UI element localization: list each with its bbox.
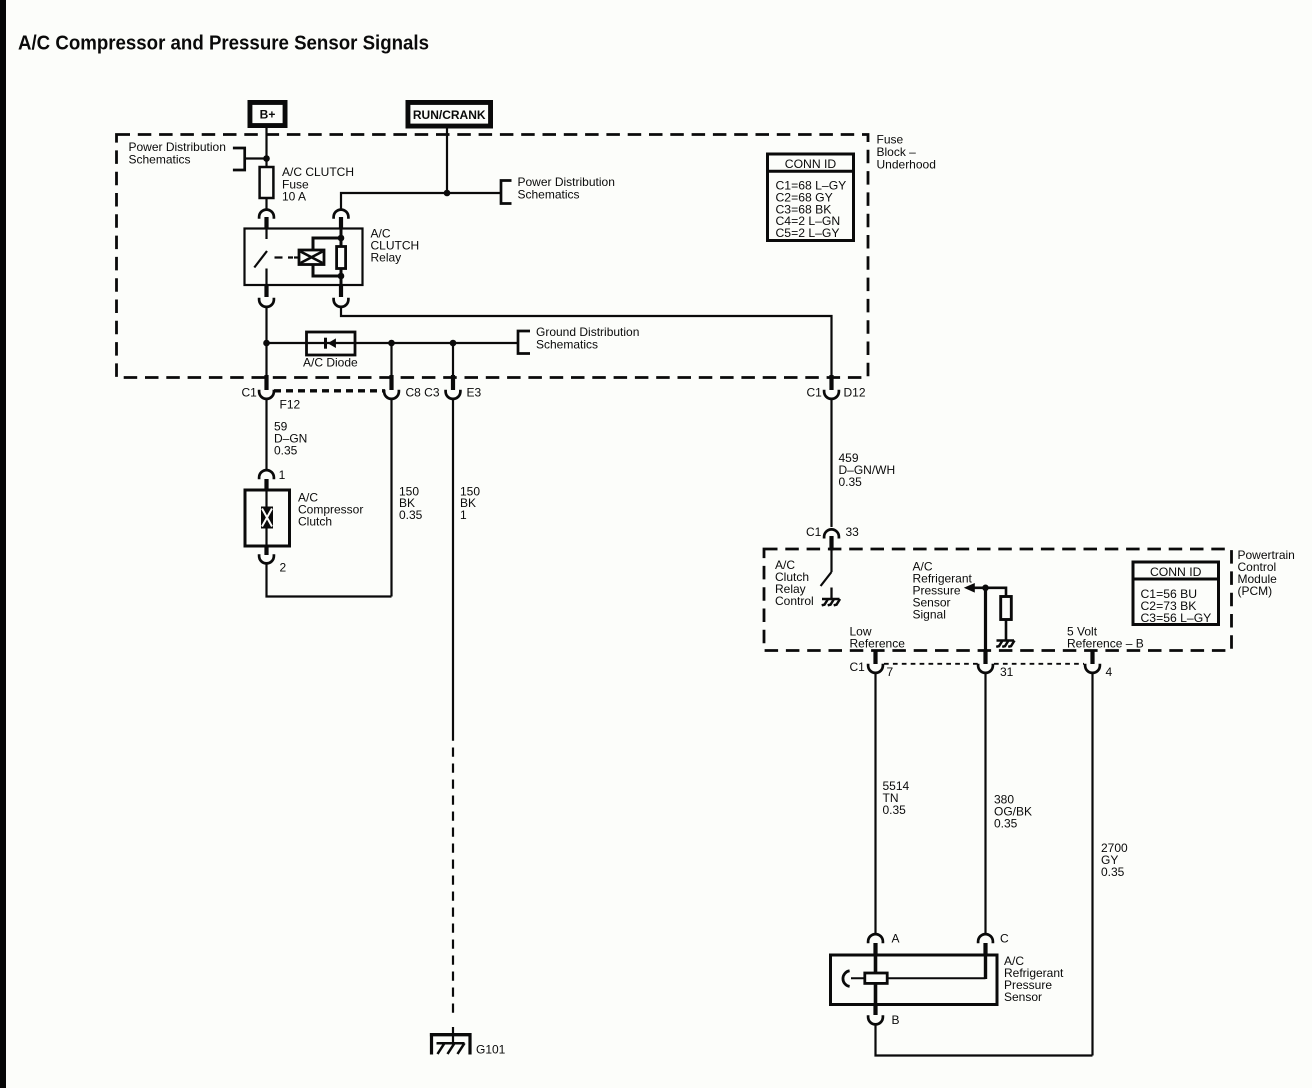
svg-text:Reference: Reference (850, 637, 906, 651)
svg-text:B+: B+ (260, 108, 276, 122)
svg-text:C: C (1000, 932, 1009, 946)
svg-text:C1: C1 (850, 660, 866, 674)
svg-text:B: B (892, 1013, 900, 1027)
svg-text:Schematics: Schematics (536, 338, 598, 352)
svg-text:Underhood: Underhood (877, 158, 936, 172)
svg-text:0.35: 0.35 (883, 803, 907, 817)
svg-text:31: 31 (1000, 665, 1014, 679)
svg-text:G101: G101 (476, 1043, 506, 1057)
svg-text:C1: C1 (242, 386, 258, 400)
svg-text:0.35: 0.35 (399, 508, 423, 522)
svg-text:Schematics: Schematics (129, 153, 191, 167)
svg-text:Sensor: Sensor (1004, 990, 1042, 1004)
svg-text:0.35: 0.35 (839, 475, 863, 489)
svg-text:Control: Control (775, 594, 814, 608)
svg-text:7: 7 (887, 665, 894, 679)
svg-text:33: 33 (846, 525, 860, 539)
svg-text:A/C Diode: A/C Diode (303, 356, 358, 370)
svg-text:Relay: Relay (371, 250, 402, 264)
svg-text:4: 4 (1106, 665, 1113, 679)
svg-text:0.35: 0.35 (994, 817, 1018, 831)
svg-text:0.35: 0.35 (1101, 865, 1125, 879)
svg-text:10 A: 10 A (282, 190, 306, 204)
svg-text:Reference – B: Reference – B (1067, 637, 1144, 651)
svg-text:C3=56 L–GY: C3=56 L–GY (1141, 611, 1212, 625)
svg-text:C8 C3: C8 C3 (406, 386, 440, 400)
svg-text:CONN ID: CONN ID (1150, 565, 1202, 579)
svg-text:RUN/CRANK: RUN/CRANK (413, 108, 486, 122)
svg-text:Signal: Signal (913, 608, 946, 622)
svg-text:F12: F12 (280, 398, 301, 412)
svg-text:C1: C1 (806, 525, 822, 539)
svg-text:A/C Compressor and Pressure Se: A/C Compressor and Pressure Sensor Signa… (18, 32, 429, 55)
svg-text:Schematics: Schematics (518, 187, 580, 201)
svg-text:0.35: 0.35 (274, 444, 298, 458)
svg-text:C5=2 L–GY: C5=2 L–GY (776, 226, 840, 240)
svg-text:C1: C1 (807, 386, 823, 400)
svg-text:D12: D12 (844, 386, 866, 400)
svg-text:(PCM): (PCM) (1238, 584, 1273, 598)
svg-text:CONN ID: CONN ID (785, 157, 837, 171)
svg-text:1: 1 (279, 468, 286, 482)
svg-text:Clutch: Clutch (298, 515, 332, 529)
svg-text:E3: E3 (467, 386, 482, 400)
svg-text:1: 1 (460, 508, 467, 522)
svg-text:A: A (892, 932, 900, 946)
svg-text:2: 2 (280, 561, 287, 575)
